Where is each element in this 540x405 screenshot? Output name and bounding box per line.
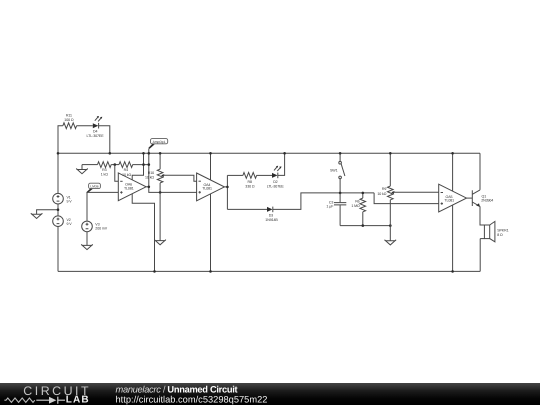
svg-text:R3: R3 <box>102 168 106 172</box>
svg-text:TL081: TL081 <box>124 187 134 191</box>
svg-text:1N914B: 1N914B <box>265 218 278 222</box>
transistor Q1 2N3904 <box>472 190 493 207</box>
wire R8 to D2 <box>257 174 273 176</box>
wire OA6 output stub <box>146 186 149 188</box>
svg-text:SPKR1: SPKR1 <box>497 229 508 233</box>
wire V3 to ground <box>86 232 88 246</box>
wire V1 to V2 <box>57 204 59 216</box>
flag AmpOp1 <box>148 139 167 149</box>
node OA5 V+ on rail <box>451 152 454 155</box>
wire R4 to vertical B <box>133 164 149 166</box>
wire OA4 output stub and branch vertical <box>224 175 227 209</box>
svg-text:TL081: TL081 <box>202 187 212 191</box>
svg-text:AmpOp1: AmpOp1 <box>153 140 166 144</box>
wire R11 to D4 <box>77 125 93 127</box>
wire R3 to node <box>111 164 119 166</box>
svg-text:100 Ω: 100 Ω <box>64 118 74 122</box>
svg-text:1 MΩ: 1 MΩ <box>351 204 360 208</box>
wire Q1 emitter to speaker <box>480 206 484 225</box>
node R3/R4 junction <box>114 163 117 166</box>
wire LM36 node to OA6 +in and V3 <box>87 192 118 221</box>
wire D3 to mid node line <box>273 193 374 210</box>
node OA6 V- at bottom rail <box>153 270 156 273</box>
diode D3 1N914B <box>265 207 278 222</box>
node D2 branch on rail <box>283 152 286 155</box>
svg-text:10 kΩ: 10 kΩ <box>377 192 386 196</box>
ground (R3 input) <box>76 165 88 174</box>
svg-text:10 kΩ: 10 kΩ <box>122 173 131 177</box>
resistor R4 10k <box>119 162 133 177</box>
svg-text:330 Ω: 330 Ω <box>245 184 255 188</box>
wire OA4 V- stub to bottom rail <box>210 194 212 272</box>
op-amp OA6 TL081 <box>118 173 146 201</box>
svg-text:2N3904: 2N3904 <box>481 199 493 203</box>
node vertical B at OA6 output <box>148 186 151 189</box>
wire junction to left ground <box>37 210 58 215</box>
wire OA4 output to D3 <box>227 208 267 210</box>
svg-text:http://circuitlab.com/c53298q5: http://circuitlab.com/c53298q575m22 <box>116 395 268 405</box>
capacitor C3 1uF <box>326 193 346 226</box>
wire OA5 V+ stub to rail <box>452 153 454 191</box>
flag LM36 <box>86 183 100 193</box>
op-amp OA5 TL081 <box>439 184 467 212</box>
node R6 bottom <box>362 224 365 227</box>
svg-text:9 V: 9 V <box>67 222 73 226</box>
wire V2 to bottom rail <box>57 227 59 272</box>
svg-text:200 mV: 200 mV <box>95 227 107 231</box>
wire OA6 V+ to R4 node and rail (vertical A) <box>132 153 143 180</box>
svg-text:R6: R6 <box>355 200 359 204</box>
node loop left on rail <box>57 152 60 155</box>
node R6 top <box>362 192 365 195</box>
node vertical A crosses R4 wire <box>142 163 145 166</box>
node OA4 V+ on rail <box>209 152 212 155</box>
wire mid node step to OA5 +in <box>374 193 439 204</box>
logo resistor squiggle <box>4 398 34 402</box>
node V1-V2 junction <box>57 208 60 211</box>
voltage source V1 9V <box>53 193 73 204</box>
wire OA4 V+ stub to rail <box>210 153 212 180</box>
svg-text:LTL-307EE: LTL-307EE <box>267 184 285 188</box>
resistor R6 1M <box>351 193 365 226</box>
LED D4 LTL-307EE <box>86 116 104 138</box>
footer bar <box>0 383 540 405</box>
wire R10 wiper to OA4 -in <box>164 175 197 181</box>
node R10 bottom junction <box>159 191 162 194</box>
op-amp OA4 TL081 <box>197 173 225 201</box>
voltage source V2 9V <box>53 216 73 227</box>
node vertical B on rail <box>148 152 151 155</box>
svg-text:TL081: TL081 <box>444 199 454 203</box>
wire OA5 V- stub to bottom rail <box>452 205 454 271</box>
svg-text:R4: R4 <box>124 168 128 172</box>
wire left vertical to V1 <box>57 153 59 193</box>
node R9 top on rail <box>389 152 392 155</box>
potentiometer R10 10k <box>145 153 164 192</box>
wire OA6 V- route to bottom rail <box>132 194 154 272</box>
wire vertical B: flag through rail, R4 node, OA6 out, to OA4 +in <box>149 149 197 193</box>
node loop right on rail <box>109 152 112 155</box>
wire D2 to rail <box>278 153 285 175</box>
svg-text:manuelacrc / Unnamed Circuit: manuelacrc / Unnamed Circuit <box>116 384 238 394</box>
svg-text:1 μF: 1 μF <box>326 205 334 209</box>
node OA4 V- at bottom rail <box>209 270 212 273</box>
svg-text:LM36: LM36 <box>90 185 98 189</box>
svg-text:LTL-307EE: LTL-307EE <box>86 134 104 138</box>
node R10 top on rail <box>159 152 162 155</box>
ground (V1/V2 junction) <box>31 213 43 218</box>
wire bottom rail right end up to speaker <box>479 239 481 272</box>
node SW1 bottom on mid line <box>339 192 342 195</box>
svg-text:8 Ω: 8 Ω <box>497 233 503 237</box>
wire top supply rail <box>58 152 480 154</box>
svg-text:R10: R10 <box>148 171 154 175</box>
wire R9 wiper to OA5 -in <box>394 191 439 193</box>
wire ground to R3 <box>82 164 98 166</box>
resistor R3 1k <box>98 162 112 177</box>
speaker SPKR1 8ohm <box>480 221 508 241</box>
svg-text:SW1: SW1 <box>330 169 338 173</box>
wire OA5 out to Q1 base <box>467 197 473 199</box>
ground (R9) <box>385 240 397 245</box>
wire bottom rail <box>58 270 480 272</box>
wire R11/D4 loop left vertical <box>58 126 63 154</box>
wire R10 bottom to ground <box>159 192 161 240</box>
wire to R8 <box>227 174 243 176</box>
node vertical A on rail <box>142 152 145 155</box>
node OA4 output <box>226 186 229 189</box>
resistor R11 <box>63 114 77 129</box>
svg-text:D4: D4 <box>93 129 97 133</box>
node vertical B at R4 wire <box>148 163 151 166</box>
potentiometer R9 10k <box>377 153 394 240</box>
ground (V3) <box>81 244 93 249</box>
svg-text:10 kΩ: 10 kΩ <box>145 176 154 180</box>
wire Q1 collector to rail corner <box>479 153 481 190</box>
svg-text:9 V: 9 V <box>67 200 73 204</box>
node bottom line at R9 <box>389 224 392 227</box>
wire C3 bottom line to R9 <box>340 225 390 227</box>
wire node down to OA6 -in <box>115 165 119 182</box>
voltage source V3 200mV <box>82 221 108 232</box>
svg-text:LAB: LAB <box>66 394 90 405</box>
wire D4 to loop right vertical <box>99 126 110 154</box>
LED D2 LTL-307EE <box>267 166 285 189</box>
svg-text:1 kΩ: 1 kΩ <box>101 173 108 177</box>
ground (R10) <box>154 240 166 245</box>
logo diode <box>49 397 56 404</box>
node OA5 V- at bottom rail <box>451 270 454 273</box>
switch SW1 <box>330 153 345 193</box>
node SW1 top on rail <box>339 152 342 155</box>
resistor R8 330 <box>243 173 257 189</box>
svg-text:R9: R9 <box>382 187 386 191</box>
